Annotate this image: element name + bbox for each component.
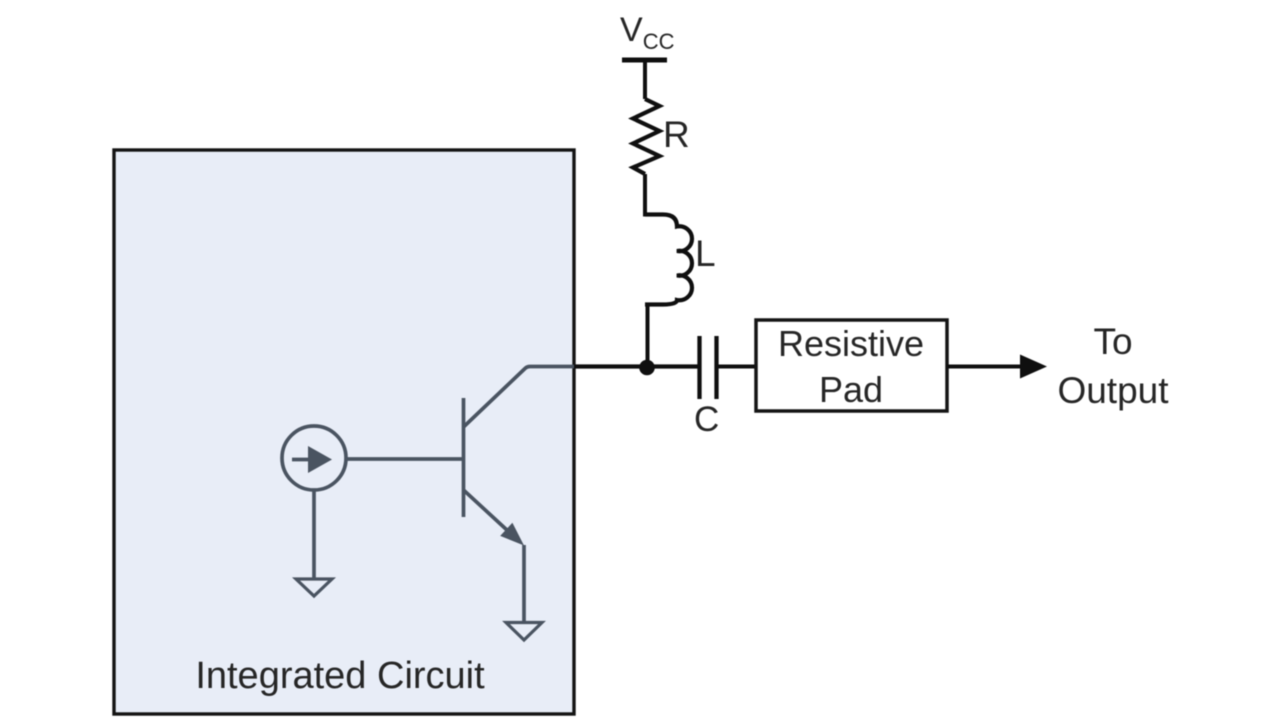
emitter diagonal [464,490,509,531]
current source I1 [282,426,346,490]
svg-text:Pad: Pad [819,369,883,410]
resistor R [633,99,660,174]
wire: emitter to ground [522,545,526,622]
svg-text:Integrated Circuit: Integrated Circuit [195,655,485,697]
wire: output arrow [947,365,1022,369]
output arrowhead [1020,355,1047,379]
inductor L [645,215,692,305]
svg-text:L: L [695,233,716,274]
ground (emitter) [506,623,542,641]
svg-text:VCC: VCC [620,11,675,54]
svg-text:Output: Output [1057,370,1169,411]
Vcc power rail bar [622,58,667,63]
transistor Q1 [464,367,576,532]
wire: capacitor to resistive pad [716,365,756,369]
wire: source to ground [312,490,316,578]
node: junction dot [639,360,655,376]
svg-text:R: R [663,114,690,155]
wire: resistor to inductor [643,174,647,217]
svg-text:To: To [1093,321,1132,362]
collector diagonal [464,367,576,428]
IC box (Integrated Circuit block) [114,150,574,714]
wire: Vcc to resistor [643,60,647,99]
wire: inductor to node [646,304,650,366]
capacitor C [700,336,717,399]
wire: collector node line (black, box edge to capacitor) [574,364,699,368]
ground (source) [296,579,332,596]
base bar [462,398,466,517]
svg-text:Resistive: Resistive [778,323,924,364]
emitter arrowhead [500,523,524,546]
svg-text:C: C [694,400,719,439]
resistive pad box [756,320,947,411]
wire: base (source to transistor) [346,457,463,461]
